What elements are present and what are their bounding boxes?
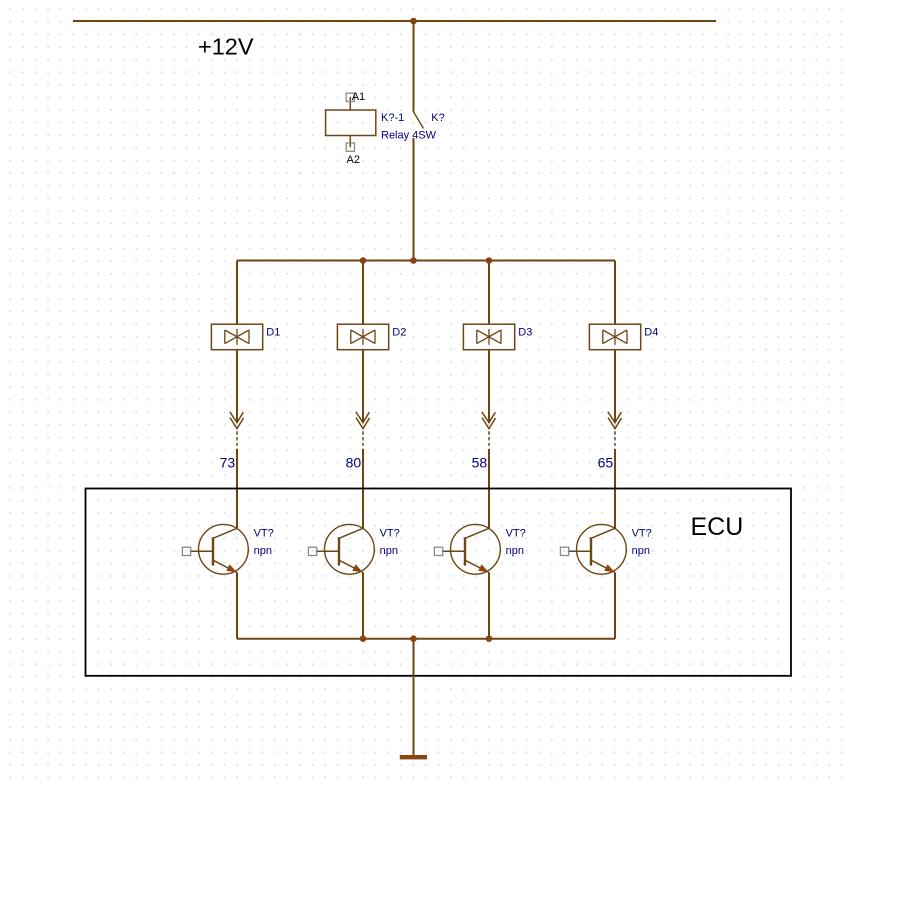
transistor VT? npn #3: [442, 524, 501, 574]
injector D1 body: [211, 324, 262, 350]
ground symbol: [400, 755, 427, 759]
wire bus to injector D1: [236, 261, 238, 325]
dashed wire segment below arrow D2: [362, 431, 364, 446]
svg-text:VT?: VT?: [632, 527, 652, 539]
junction on ground bus: [360, 635, 367, 642]
svg-text:D3: D3: [518, 327, 532, 339]
svg-text:+12V: +12V: [198, 33, 254, 59]
svg-text:npn: npn: [254, 545, 272, 557]
pin square base of VT? #1: [182, 547, 190, 555]
pin square base of VT? #4: [560, 547, 568, 555]
svg-text:npn: npn: [380, 545, 398, 557]
transistor VT? npn #1: [190, 524, 249, 574]
wire injector D1 to spray arrow: [236, 350, 238, 423]
relay coil K?-1 body: [326, 110, 376, 136]
pin square A1: [346, 93, 354, 101]
svg-text:58: 58: [472, 455, 488, 471]
wire emitter ground bus: [237, 638, 615, 640]
spray arrow (double chevron) below D1: [230, 412, 244, 429]
svg-text:80: 80: [346, 455, 362, 471]
svg-text:D4: D4: [644, 327, 658, 339]
pin square A2: [346, 143, 354, 151]
svg-text:K?-1: K?-1: [381, 112, 404, 124]
svg-text:D2: D2: [392, 327, 406, 339]
wire emitter VT? #4 to ground bus: [614, 573, 616, 639]
wire bus to injector D4: [614, 261, 616, 325]
dashed wire segment below arrow D3: [488, 431, 490, 446]
wire injector D4 to spray arrow: [614, 350, 616, 423]
junction on ground bus: [410, 635, 417, 642]
wire rail to switch K?: [413, 21, 415, 112]
svg-text:ECU: ECU: [691, 513, 744, 541]
injector D4 body: [589, 324, 640, 350]
svg-text:npn: npn: [506, 545, 524, 557]
transistor VT? npn #2: [316, 524, 375, 574]
wire bus to injector D2: [362, 261, 364, 325]
svg-text:Relay 4SW: Relay 4SW: [381, 130, 437, 142]
svg-text:VT?: VT?: [254, 527, 274, 539]
svg-text:VT?: VT?: [380, 527, 400, 539]
wire +12V supply rail: [73, 20, 716, 22]
junction on distribution bus: [410, 257, 417, 264]
ECU block outline: [86, 489, 792, 676]
relay coil pin lead A2: [349, 136, 351, 148]
pin square base of VT? #2: [308, 547, 316, 555]
transistor VT? npn #4: [568, 524, 627, 574]
svg-text:73: 73: [220, 455, 236, 471]
pin square base of VT? #3: [434, 547, 442, 555]
wire into ECU pin 73: [236, 449, 238, 529]
junction on distribution bus: [486, 257, 493, 264]
wire ground stem: [413, 639, 415, 755]
junction on +12V rail: [410, 18, 417, 25]
spray arrow (double chevron) below D3: [482, 412, 496, 429]
wire injector D2 to spray arrow: [362, 350, 364, 423]
svg-text:VT?: VT?: [506, 527, 526, 539]
dashed wire segment below arrow D1: [236, 431, 238, 446]
relay coil pin lead A1: [349, 97, 351, 110]
wire switch to distribution bus: [413, 138, 415, 261]
svg-text:K?: K?: [431, 112, 444, 124]
junction on ground bus: [486, 635, 493, 642]
svg-text:A2: A2: [347, 154, 360, 166]
spray arrow (double chevron) below D4: [608, 412, 622, 429]
wire emitter VT? #2 to ground bus: [362, 573, 364, 639]
wire into ECU pin 65: [614, 449, 616, 529]
wire bus to injector D3: [488, 261, 490, 325]
wire emitter VT? #3 to ground bus: [488, 573, 490, 639]
switch contact K? (relay 4SW contact): [413, 112, 423, 129]
injector D3 body: [463, 324, 514, 350]
wire into ECU pin 80: [362, 449, 364, 529]
wire injector D3 to spray arrow: [488, 350, 490, 423]
junction on distribution bus: [360, 257, 367, 264]
svg-text:65: 65: [598, 455, 614, 471]
injector D2 body: [337, 324, 388, 350]
dashed wire segment below arrow D4: [614, 431, 616, 446]
wire emitter VT? #1 to ground bus: [236, 573, 238, 639]
svg-text:npn: npn: [632, 545, 650, 557]
spray arrow (double chevron) below D2: [356, 412, 370, 429]
svg-text:A1: A1: [352, 91, 365, 103]
wire distribution bus: [237, 260, 615, 262]
svg-text:D1: D1: [266, 327, 280, 339]
wire into ECU pin 58: [488, 449, 490, 529]
